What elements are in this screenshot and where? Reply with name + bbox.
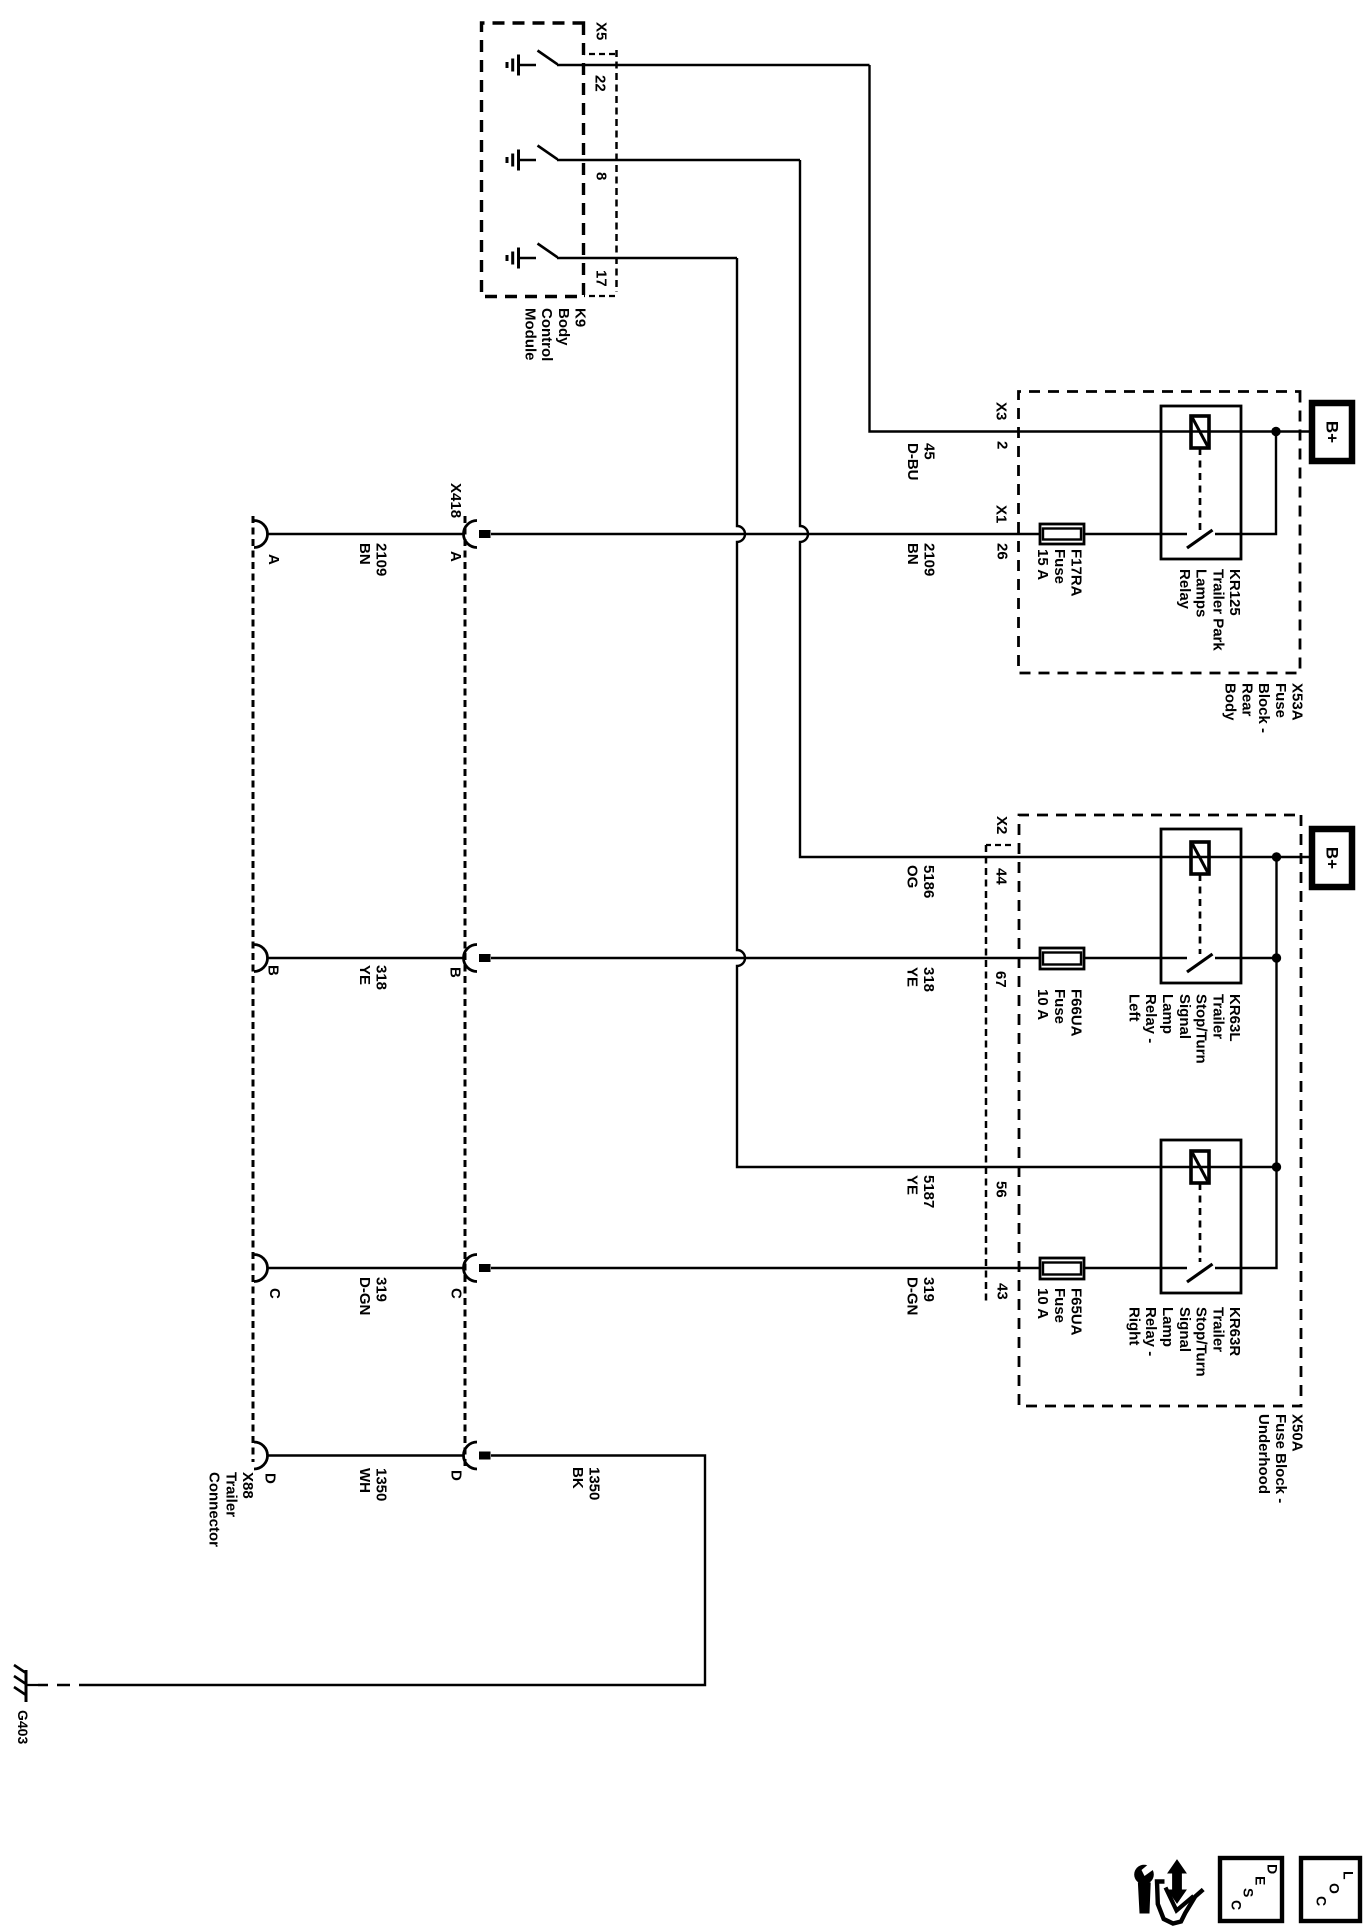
wire 2109 BN between connectors (pin A) [267,533,464,535]
svg-text:D: D [448,1470,465,1481]
svg-text:Trailer: Trailer [222,1472,239,1517]
svg-text:318: 318 [920,967,937,992]
svg-text:1350: 1350 [586,1467,603,1500]
wire 1350 BK from X418 pin D to ground G403 [92,1456,705,1686]
svg-text:Lamps: Lamps [1193,569,1210,617]
svg-text:S: S [1240,1888,1256,1897]
svg-text:319: 319 [373,1277,390,1302]
svg-text:Relay: Relay [1176,569,1193,610]
ground symbol inside BCM (pin 8 driver) [517,150,520,171]
switch pin 8 wire (up through X5) [557,159,800,161]
svg-text:D-GN: D-GN [904,1277,921,1315]
svg-text:B: B [265,965,282,976]
battery terminal B+ (X53A) [1312,403,1352,461]
svg-text:KR125: KR125 [1226,569,1243,616]
wire 319 D-GN from fuse F65UA to X418 pin C [491,1267,1040,1269]
svg-text:Relay -: Relay - [1142,994,1159,1043]
svg-text:319: 319 [920,1277,937,1302]
svg-text:Right: Right [1125,1307,1142,1345]
icon glove outline [1157,1882,1203,1924]
svg-text:Body: Body [555,308,572,346]
connector X2 (dashed line below X50A) [985,845,988,1305]
svg-text:Control: Control [538,308,555,361]
svg-text:OG: OG [904,865,921,888]
svg-text:Signal: Signal [1176,994,1193,1039]
wire 2109 BN from fuse F17RA to X418 pin A [491,533,1040,535]
svg-text:D-BU: D-BU [904,443,921,481]
svg-text:A: A [447,551,464,562]
relay KR63L actuator dashed link [1199,874,1202,954]
junction dot on B+ rail (KR125) [1271,427,1280,436]
fuse F65UA symbol inner [1043,1263,1081,1275]
svg-text:D: D [262,1473,279,1484]
svg-text:8: 8 [593,172,610,180]
wire KR63L switch output to fuse F66UA [1084,957,1187,959]
svg-text:10 A: 10 A [1034,1288,1051,1319]
svg-text:Trailer: Trailer [1209,1307,1226,1352]
relay KR63L switch blade [1187,954,1213,972]
svg-text:2109: 2109 [373,543,390,576]
ground symbol inside BCM (pin 22 driver) [517,55,520,76]
ground G403 symbol [26,1684,38,1686]
icon box DESC [1220,1858,1282,1921]
svg-text:10 A: 10 A [1034,989,1051,1020]
junction dot B+ rail at KR63L switch [1272,953,1281,962]
wire B+ rail drop to KR63L switch [1215,957,1277,959]
svg-text:WH: WH [356,1468,373,1493]
svg-text:22: 22 [592,75,609,92]
svg-text:A: A [265,554,282,565]
relay KR63R coil [1191,1151,1209,1183]
svg-text:Stop/Turn: Stop/Turn [1193,1307,1210,1377]
svg-text:Lamp: Lamp [1159,994,1176,1034]
svg-text:Fuse Block -: Fuse Block - [1272,1414,1289,1503]
svg-text:67: 67 [992,971,1009,988]
svg-text:56: 56 [993,1181,1010,1198]
fuse F17RA symbol outer [1040,524,1084,544]
wire 5187 YE from BCM pin 17 to KR63R coil (with hops over wires A and B) [737,258,1277,1167]
svg-text:Underhood: Underhood [1255,1414,1272,1494]
relay KR63R box [1161,1140,1241,1293]
svg-text:KR63R: KR63R [1226,1307,1243,1356]
svg-text:Relay -: Relay - [1142,1307,1159,1356]
relay KR125 box [1161,406,1241,559]
connector X418 pin D terminal [479,1452,491,1460]
wire 45 D-BU from BCM pin 22 to KR125 coil [870,65,1277,432]
svg-text:F65UA: F65UA [1068,1288,1085,1336]
icon box LOC [1301,1858,1360,1921]
relay KR63R coil diagonal [1193,1153,1208,1181]
svg-text:2: 2 [994,441,1011,449]
svg-text:C: C [266,1288,283,1299]
svg-text:43: 43 [994,1283,1011,1300]
fuse F66UA symbol inner [1043,953,1081,965]
fuse F65UA symbol outer [1040,1258,1084,1279]
relay KR63L box [1161,829,1241,983]
connector X88 pin C terminal [254,1255,268,1282]
battery terminal B+ (X50A) [1312,829,1352,887]
svg-text:Block -: Block - [1255,683,1272,733]
svg-text:5187: 5187 [920,1175,937,1208]
svg-text:2109: 2109 [921,543,938,576]
svg-text:Fuse: Fuse [1051,989,1068,1024]
relay KR63R actuator dashed link [1199,1183,1202,1262]
wire B+ rail to relay switch KR125 [1215,432,1276,535]
junction dot B+ rail at KR63L coil [1272,852,1281,861]
connector X5 (dashed line on top of BCM) [615,50,618,292]
wire 318 YE between connectors (pin B) [267,957,464,959]
connector X88 pin B terminal [254,945,268,972]
svg-text:BK: BK [569,1467,586,1489]
switch pin 22 wire (up through X5) [557,64,870,66]
svg-text:O: O [1326,1883,1342,1894]
svg-text:X50A: X50A [1289,1414,1306,1452]
relay KR125 coil [1191,416,1209,448]
connector X88 pin A terminal [254,521,268,548]
svg-text:BN: BN [356,543,373,565]
icon double arrow [1168,1860,1186,1903]
wire 319 D-GN between connectors (pin C) [267,1267,464,1269]
svg-text:Fuse: Fuse [1272,683,1289,718]
fuse F17RA symbol inner [1043,529,1081,540]
svg-text:G403: G403 [15,1710,31,1744]
svg-text:E: E [1252,1876,1268,1885]
wire B+ rail across X50A [1215,857,1277,1268]
svg-text:X2: X2 [993,816,1010,834]
connector X88 (dashed line) [252,516,255,1462]
svg-text:X1: X1 [993,505,1010,523]
svg-text:X3: X3 [993,402,1010,420]
svg-text:YE: YE [356,965,373,985]
svg-text:B+: B+ [1322,847,1341,869]
svg-text:Fuse: Fuse [1051,1288,1068,1323]
wire KR63R switch output to fuse F65UA [1084,1267,1187,1269]
svg-text:Trailer Park: Trailer Park [1209,569,1226,651]
svg-text:KR63L: KR63L [1226,994,1243,1042]
svg-text:X5: X5 [593,22,610,40]
fuse F66UA symbol outer [1040,948,1084,969]
wire dashed segment to G403 [38,1684,92,1686]
svg-text:D: D [1264,1864,1280,1874]
svg-text:B+: B+ [1322,421,1341,443]
svg-text:Module: Module [521,308,538,361]
svg-text:K9: K9 [572,308,589,327]
fuse block X53A (dashed box) [1019,392,1301,674]
icon wrench [1134,1865,1154,1885]
relay KR125 coil diagonal [1193,418,1208,446]
svg-text:X88: X88 [239,1472,256,1499]
connector X5 right bracket [584,295,615,297]
svg-text:1350: 1350 [373,1468,390,1501]
wire B+ to junction [1276,430,1315,432]
connector X2 bracket [986,844,1011,846]
svg-text:F17RA: F17RA [1068,549,1085,597]
svg-text:45: 45 [921,443,938,460]
svg-text:44: 44 [993,868,1010,885]
svg-text:Connector: Connector [206,1472,223,1547]
fuse block X50A (dashed box) [1019,815,1301,1406]
ground symbol inside BCM (pin 17 driver) [517,248,520,269]
svg-text:318: 318 [373,965,390,990]
relay KR63L coil [1191,842,1209,874]
svg-text:Signal: Signal [1176,1307,1193,1352]
svg-text:YE: YE [904,967,921,987]
svg-text:C: C [448,1288,465,1299]
switch pin 17 wire (up through X5) [557,257,737,259]
svg-text:X53A: X53A [1289,683,1306,721]
connector X5 left bracket [584,53,615,55]
junction dot B+ rail at KR63R coil [1272,1162,1281,1171]
relay KR125 actuator dashed link [1199,448,1202,530]
svg-text:Trailer: Trailer [1209,994,1226,1039]
svg-text:L: L [1340,1871,1356,1880]
wire 5186 OG from BCM pin 8 to KR63L coil (with hop over wire A) [800,160,1277,857]
wire 1350 WH between connectors (pin D) [267,1454,464,1456]
relay KR63L coil diagonal [1193,844,1208,872]
connector X418 pin A terminal [479,530,491,538]
svg-text:17: 17 [593,270,610,287]
svg-text:15 A: 15 A [1034,549,1051,580]
wire KR125 switch output to fuse F17RA [1084,533,1187,535]
connector X88 pin D terminal [254,1442,268,1469]
svg-text:C: C [1313,1896,1329,1906]
connector X418 pin C terminal [479,1264,491,1272]
svg-text:26: 26 [994,543,1011,560]
svg-text:YE: YE [904,1175,921,1195]
module K9 Body Control Module (dashed box) [482,23,584,297]
svg-text:X418: X418 [447,483,464,518]
wire 318 YE from fuse F66UA to X418 pin B [491,957,1040,959]
svg-text:Lamp: Lamp [1159,1307,1176,1347]
svg-text:Left: Left [1125,994,1142,1022]
svg-text:F66UA: F66UA [1068,989,1085,1037]
svg-text:C: C [1228,1900,1244,1910]
wire B+ X50A to junction [1277,856,1316,858]
svg-text:Rear: Rear [1238,683,1255,717]
svg-text:BN: BN [904,543,921,565]
relay KR125 switch blade [1187,530,1213,548]
svg-text:Stop/Turn: Stop/Turn [1193,994,1210,1064]
svg-text:B: B [447,967,464,978]
svg-text:Body: Body [1222,683,1239,721]
svg-text:5186: 5186 [920,865,937,898]
connector X418 (dashed line) [464,516,467,1466]
svg-text:Fuse: Fuse [1051,549,1068,584]
relay KR63R switch blade [1187,1264,1213,1282]
connector X418 pin B terminal [479,954,491,962]
svg-text:D-GN: D-GN [356,1277,373,1315]
